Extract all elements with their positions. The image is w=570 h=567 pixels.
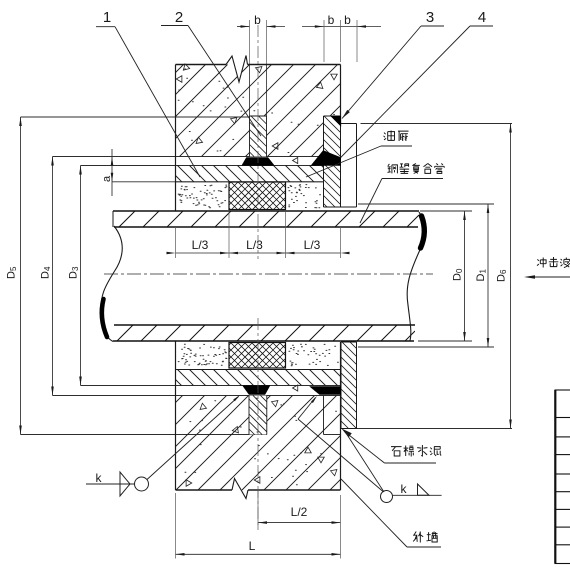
pipe break line right (S-curve with thick part) — [407, 212, 424, 341]
extension line D4 top / wall layer line (y=156.5) — [53, 156, 341, 158]
caulking groove top (back-hatched) — [250, 116, 267, 157]
exterior wall upper block (concrete hatch) — [176, 65, 341, 157]
steel-plastic pipe bottom wall (hatched) — [117, 325, 415, 341]
svg-text:L/2: L/2 — [291, 505, 308, 519]
exterior wall lower block (concrete hatch) — [176, 396, 341, 491]
label youma (oakum) — [384, 131, 395, 141]
svg-text:b: b — [328, 13, 335, 27]
hemp packing block bottom (crosshatch) — [229, 343, 286, 369]
svg-text:L/3: L/3 — [192, 238, 209, 252]
dimension a line — [111, 149, 113, 196]
dimension D5 line — [20, 117, 22, 435]
speckle dots oakum and concrete — [178, 69, 338, 485]
sleeve collar bottom (back-hatched column, outside wall) — [341, 342, 357, 429]
svg-text:L: L — [249, 539, 256, 553]
dimension L — [176, 553, 341, 555]
L/3 extension lines — [228, 211, 230, 258]
dimension D6 line — [510, 124, 512, 429]
label asbestos cement — [391, 447, 402, 456]
svg-text:4: 4 — [478, 9, 486, 26]
sealant weld fill top-right at collar — [311, 151, 341, 166]
steel-plastic pipe top wall (hatched) — [119, 211, 419, 227]
oakum packing band bottom (speckled) — [176, 369, 357, 371]
groove bottom-right of wall (open) — [323, 396, 325, 435]
dimension L/3 chain line — [176, 252, 341, 254]
extension line D4 bottom (y=395.5) — [53, 395, 341, 397]
sealant weld fill bottom-left of groove — [243, 386, 271, 395]
aggregate marks upper wall — [183, 64, 189, 70]
L extension lines — [175, 493, 177, 559]
oakum packing band top (speckled) — [176, 181, 324, 183]
svg-text:L/3: L/3 — [246, 238, 263, 252]
asbestos filler strip top (white) — [341, 123, 357, 125]
dimension b1 (caulk groove width) — [237, 26, 250, 28]
extension line D6 bottom (y=428.5) — [357, 428, 513, 430]
dimension D1 line — [487, 204, 489, 347]
data table (cut off at sheet edge) — [554, 390, 556, 564]
extension line D3 bottom (y=385.5) — [81, 385, 341, 387]
caulk mark bottom gap band — [293, 385, 298, 391]
right k leader to collar corner — [346, 433, 384, 492]
wall right edge upper — [340, 65, 342, 117]
extension line D0 top — [420, 210, 472, 212]
label shock wave with arrow — [537, 258, 546, 268]
pipe horizontal centerline — [104, 273, 433, 275]
svg-text:b: b — [344, 13, 351, 27]
wall left edge upper — [175, 65, 177, 212]
svg-text:k: k — [401, 482, 408, 496]
caulk mark top gap band — [293, 157, 298, 163]
svg-text:k: k — [96, 471, 103, 485]
label steel-plastic composite pipe — [388, 164, 398, 174]
penetration vertical centreline — [257, 25, 259, 259]
weld triangle at collar top — [331, 116, 342, 127]
svg-text:a: a — [101, 175, 113, 182]
L/2 left extension (wall centre) — [257, 490, 259, 530]
svg-text:b: b — [254, 13, 261, 27]
dimension b2 b3 (sleeve layers) — [302, 26, 324, 28]
b2 b3 extension lines — [323, 20, 325, 62]
svg-text:L/3: L/3 — [304, 238, 321, 252]
aggregate marks lower wall — [200, 403, 206, 409]
extension line D5 top (y=117) — [21, 116, 267, 118]
sleeve flange band top (back-hatched) — [176, 176, 182, 182]
groove edge lines through wall — [249, 65, 251, 117]
sealant weld fill top-left of groove — [242, 158, 274, 166]
extension line D0 bottom — [418, 340, 472, 342]
dimension D3 line — [80, 166, 82, 386]
right k leader to lower sealant — [298, 419, 383, 492]
sealant weld fill bottom-right at wall face — [310, 387, 341, 395]
svg-text:3: 3 — [426, 9, 434, 26]
groove extension lines to top dim — [249, 20, 251, 65]
dimension L/2 — [258, 522, 341, 524]
svg-text:2: 2 — [175, 9, 183, 26]
dimension D4 line — [52, 157, 54, 396]
extension line D1 top (y=204) — [358, 203, 494, 205]
wall right edge lower — [340, 342, 342, 490]
sleeve collar top (back-hatched column) — [324, 116, 341, 207]
extension line D5 bottom (y=434.5) — [21, 434, 268, 436]
sleeve flange band bottom (back-hatched) — [176, 380, 182, 386]
label exterior wall — [413, 532, 423, 543]
hemp packing block top (crosshatch) — [229, 182, 286, 210]
extension line oakum top (y=181.8) — [112, 181, 324, 183]
extension line D3 top / flange top line (y=165.5) — [81, 165, 341, 167]
extension line D1 bottom (y=347) — [358, 346, 494, 348]
caulking groove bottom (back-hatched) — [249, 396, 267, 435]
dimension D0 line — [464, 211, 466, 341]
pipe break line left (S-curve with thick part) — [101, 226, 122, 342]
break zigzag on wall top edge — [226, 56, 248, 83]
break zigzag on wall bottom edge — [232, 479, 248, 499]
svg-text:1: 1 — [103, 9, 111, 26]
wall left edge lower — [175, 341, 177, 490]
extension line D6 top (y=123.5) — [361, 123, 513, 125]
